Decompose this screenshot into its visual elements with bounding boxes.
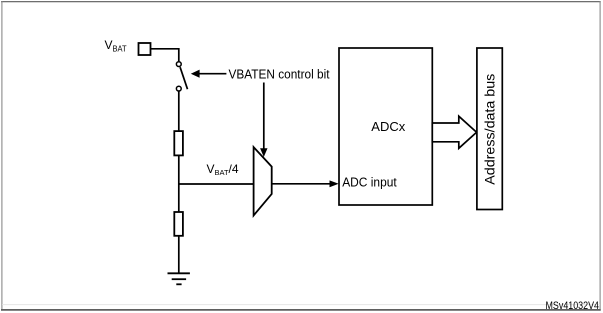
svg-text:ADC input: ADC input (342, 174, 397, 189)
svg-text:Address/data bus: Address/data bus (481, 74, 497, 185)
wire upper resistor to lower resistor (178, 155, 180, 212)
resistor (upper divider resistor) (174, 131, 183, 155)
svg-text:ADCx: ADCx (371, 119, 405, 134)
svg-text:MSv41032V4: MSv41032V4 (546, 300, 600, 312)
resistor (lower divider resistor) (174, 212, 183, 236)
wire pin to switch (151, 49, 179, 62)
block ADCx (339, 48, 432, 205)
svg-text:VBATEN control bit: VBATEN control bit (229, 66, 330, 81)
wire VBATEN control line to mux (260, 83, 267, 158)
bus arrow ADCx to address/data bus (432, 116, 476, 148)
ground (168, 273, 190, 284)
wire mux output to ADC input (272, 180, 339, 187)
arrow VBATEN control to switch (191, 70, 227, 78)
block address/data bus (477, 48, 502, 210)
wire switch to upper resistor (178, 91, 180, 131)
switch (VBAT switch) (176, 62, 187, 91)
wire lower resistor to ground (178, 236, 180, 273)
mux (analog switch to ADC channel) (254, 147, 272, 215)
wire node VBAT/4 to mux input (178, 183, 254, 185)
pin VBAT (I/O pad square) (139, 43, 151, 55)
